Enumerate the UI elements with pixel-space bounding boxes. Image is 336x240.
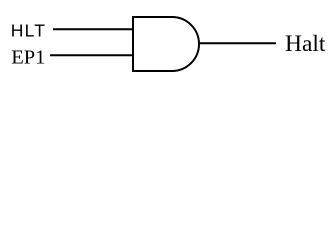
svg-text:HLT: HLT	[11, 20, 46, 40]
svg-text:Halt: Halt	[285, 31, 326, 57]
svg-text:EP1: EP1	[11, 47, 45, 69]
